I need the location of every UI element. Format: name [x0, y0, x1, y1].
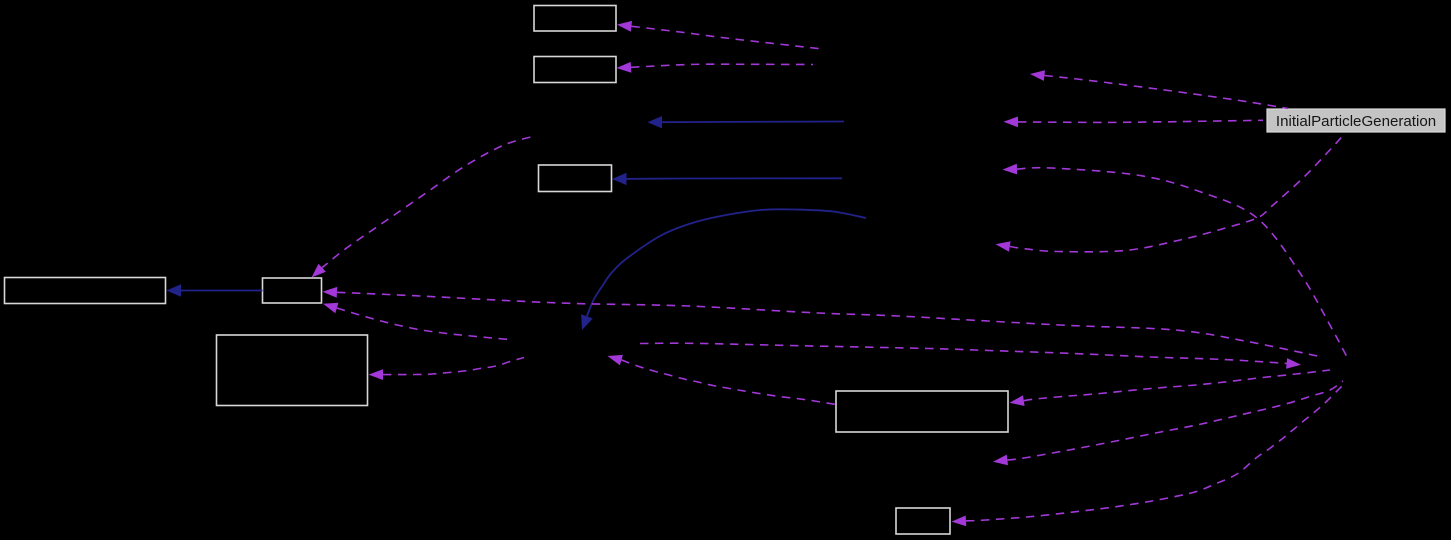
magenta usage edge M12 into right edge of box B6: [369, 358, 525, 381]
magenta usage edge M3 from InitialParticleGeneration to hidden node N1: [1030, 70, 1288, 108]
node box B4 (left wide class): [5, 278, 166, 304]
node InitialParticleGeneration (highlighted): [1267, 109, 1445, 132]
node box B6 (tall class): [217, 335, 368, 406]
magenta usage edge M8 left part: from hidden node N6 into box B5 corner: [323, 303, 509, 340]
node box B5: [263, 278, 322, 303]
node box B3: [539, 165, 612, 192]
magenta usage edge M2 into box B2: [617, 62, 814, 73]
node box B7: [836, 391, 1008, 432]
magenta usage edge M14 from hub around bottom-right into box B8: [952, 383, 1346, 526]
magenta usage edge M13 from hub down-left to hidden node N5: [993, 381, 1343, 465]
blue inheritance edge E1 (straight, arrow into hidden node): [648, 116, 845, 128]
magenta usage edge M7 from hub into right edge of box B5: [323, 287, 1323, 357]
magenta usage edge M5 from hub up-left to hidden node N3: [1003, 164, 1348, 357]
magenta usage edge M8 right part: from hidden node N6 to hub (arrow at hub): [640, 343, 1301, 369]
magenta usage edge M11 from left edge of box B7 to hidden node N6: [608, 355, 837, 405]
magenta usage edge M10 from hub into right edge of box B7: [1010, 370, 1331, 406]
blue inheritance edge E3 (long curve down-left): [581, 209, 866, 330]
node box B8 (bottom small class): [896, 508, 950, 534]
magenta usage edge M6 from InitialParticleGeneration down to hidden node N4: [996, 135, 1345, 252]
blue inheritance edge E4 from box B5 into box B4: [167, 284, 263, 296]
node box B2: [534, 57, 616, 83]
magenta usage edge M1 into box B1: [617, 21, 822, 49]
blue inheritance edge E2 into box B3: [612, 173, 842, 185]
node box B1 (top small class): [534, 6, 616, 32]
svg-text:InitialParticleGeneration: InitialParticleGeneration: [1276, 113, 1436, 130]
magenta usage edge M4 from InitialParticleGeneration to hidden node N2: [1004, 117, 1264, 128]
magenta usage edge M15 diagonal from hidden node D into top edge of box B5: [312, 136, 536, 278]
